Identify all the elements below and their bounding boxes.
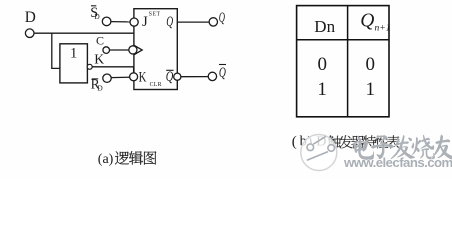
- wire Q output: [177, 21, 209, 23]
- watermark logo circle: [301, 135, 337, 171]
- pin label Q-bar: [166, 69, 174, 85]
- svg-text:Q: Q: [166, 69, 174, 85]
- svg-text:Dn: Dn: [314, 17, 335, 36]
- label CLR: [150, 82, 162, 88]
- input terminal R_D (active-low reset): [91, 74, 112, 93]
- svg-text:Q: Q: [166, 14, 173, 30]
- pin label Q: [166, 14, 173, 30]
- watermark url www.elecfans.com: [343, 155, 452, 170]
- table header Dn: [314, 17, 335, 36]
- input terminal D: [25, 9, 36, 37]
- wire R_D terminal to K bubble: [111, 76, 129, 78]
- table cell Q=0: [366, 54, 376, 75]
- table header Qn+1: [360, 10, 390, 33]
- inverter U1 box: [60, 44, 88, 83]
- svg-text:K: K: [139, 69, 147, 85]
- truth table frame: [297, 6, 389, 117]
- pin Q-bar output bubble: [174, 73, 181, 80]
- svg-text:CLR: CLR: [150, 82, 162, 88]
- svg-text:1: 1: [366, 79, 376, 100]
- pin J input bubble: [130, 18, 138, 26]
- svg-text:0: 0: [366, 54, 376, 75]
- svg-text:Q: Q: [219, 65, 226, 81]
- output terminal Q-bar: [208, 65, 226, 82]
- svg-text:(a): (a): [98, 152, 114, 167]
- svg-text:D: D: [94, 12, 100, 21]
- svg-text:1: 1: [70, 45, 77, 61]
- svg-text:J: J: [142, 14, 148, 30]
- svg-text:n+1: n+1: [375, 22, 391, 33]
- wire S_D terminal to J bubble: [111, 21, 130, 23]
- caption (b) D flip-flop characteristic table: [292, 134, 400, 151]
- table cell Q=1: [366, 79, 376, 100]
- watermark text dianzifashaoyou: [354, 135, 452, 160]
- wire from D terminal to flip-flop left edge: [34, 32, 134, 34]
- input terminal S_D (active-low set): [90, 5, 111, 26]
- input terminal C (clock): [96, 34, 109, 54]
- svg-text:C: C: [96, 34, 104, 48]
- svg-text:SET: SET: [149, 12, 161, 18]
- caption (a) logic diagram: [98, 151, 157, 167]
- svg-text:D: D: [97, 84, 103, 93]
- svg-text:Q: Q: [360, 10, 374, 31]
- svg-text:(: (: [292, 134, 297, 150]
- table cell D=0: [318, 54, 328, 75]
- wire C terminal to clock input: [110, 49, 129, 51]
- label SET: [149, 12, 161, 18]
- svg-text:www.elecfans.com: www.elecfans.com: [343, 155, 452, 170]
- pin CP input bubble and edge-trigger mark: [129, 45, 142, 55]
- svg-text:K: K: [94, 52, 104, 67]
- table cell D=1: [317, 79, 327, 100]
- pin label K: [139, 69, 147, 85]
- pin K input bubble: [130, 73, 138, 81]
- output terminal Q: [209, 10, 225, 26]
- svg-text:1: 1: [317, 79, 327, 100]
- pin label J: [142, 14, 148, 30]
- svg-text:D: D: [25, 9, 36, 26]
- wire K net: inverter output to K input: [92, 52, 133, 73]
- flip-flop U2 body: [134, 9, 177, 90]
- svg-text:0: 0: [318, 54, 328, 75]
- wire branch down to inverter input: [52, 33, 60, 68]
- wire Q-bar output: [181, 76, 209, 78]
- inverter U1 output bubble: [87, 64, 92, 69]
- svg-text:Q: Q: [219, 10, 225, 26]
